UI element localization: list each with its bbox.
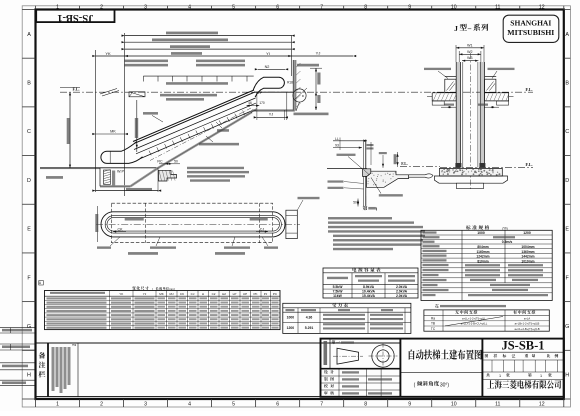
svg-text:1: 1 bbox=[56, 402, 59, 408]
svg-text:CJ: CJ bbox=[191, 292, 195, 296]
plan view - chain label bbox=[250, 218, 268, 221]
plan view - drive unit label bbox=[125, 218, 144, 221]
title block - main title bbox=[399, 339, 401, 397]
svg-text:93: 93 bbox=[335, 144, 339, 148]
view I reference label lower-left bbox=[46, 176, 63, 179]
svg-text:在: 在 bbox=[435, 302, 439, 308]
lower landing floor line bbox=[40, 167, 158, 169]
title block - company name bbox=[487, 380, 561, 389]
middle support note text bbox=[187, 167, 244, 169]
svg-text:F.L.: F.L. bbox=[525, 162, 532, 167]
svg-text:30°): 30°) bbox=[440, 382, 450, 388]
foundation pedestal bbox=[457, 183, 484, 188]
svg-text:1160mm: 1160mm bbox=[476, 250, 489, 254]
title block - drawing number bbox=[481, 339, 483, 397]
force table bbox=[283, 303, 411, 333]
svg-text:UP: UP bbox=[243, 292, 247, 296]
lower hook of handrail bbox=[101, 142, 143, 164]
plan view - right end box bbox=[286, 210, 297, 238]
svg-text:12: 12 bbox=[539, 402, 545, 408]
projection symbol - circle bbox=[372, 345, 394, 367]
SHANGHAI MITSUBISHI logo box bbox=[503, 15, 559, 42]
svg-text:PK: PK bbox=[253, 292, 257, 296]
svg-text:a+CL+2-B+(TI)+y(LB: a+CL+2-B+(TI)+y(LB bbox=[514, 327, 539, 331]
svg-text:J: J bbox=[454, 24, 458, 33]
upper floor wall (grey vertical) bbox=[293, 60, 296, 111]
handrail brackets with hatch (right) bbox=[485, 79, 496, 92]
remarks vertical strip bbox=[47, 343, 49, 397]
svg-text:YK: YK bbox=[105, 51, 111, 56]
svg-text:10: 10 bbox=[451, 4, 457, 10]
svg-text:5.291: 5.291 bbox=[305, 326, 314, 330]
svg-text:11kW: 11kW bbox=[333, 294, 342, 298]
view I - 50 dim bottom bbox=[365, 196, 367, 206]
svg-text:15.4kVA: 15.4kVA bbox=[362, 294, 375, 298]
svg-text:7: 7 bbox=[320, 4, 323, 10]
svg-text:W.P: W.P bbox=[117, 169, 124, 173]
svg-text:6: 6 bbox=[276, 402, 279, 408]
left floor-height dimension bbox=[69, 92, 71, 168]
svg-text:A: A bbox=[27, 32, 31, 38]
svg-text:制: 制 bbox=[324, 377, 328, 382]
plan view - stadium outline outer bbox=[113, 212, 274, 237]
svg-text:11: 11 bbox=[495, 402, 500, 408]
svg-text:759: 759 bbox=[72, 343, 77, 347]
svg-text:B: B bbox=[565, 81, 569, 87]
svg-text:MJ: MJ bbox=[170, 292, 174, 296]
svg-text:D: D bbox=[27, 178, 31, 184]
railing labels (by customer) bbox=[424, 68, 451, 70]
svg-text:46: 46 bbox=[248, 101, 252, 105]
svg-text:1200: 1200 bbox=[523, 231, 531, 235]
step nose ticks bbox=[149, 151, 151, 156]
svg-text:记: 记 bbox=[512, 353, 516, 358]
top-left drawing number box (rotated JS-SB-1) bbox=[36, 10, 114, 23]
svg-text:1242mm: 1242mm bbox=[476, 255, 489, 259]
view I - hatched concrete floor slab bbox=[367, 171, 409, 187]
svg-text:11: 11 bbox=[495, 4, 500, 10]
svg-text:7: 7 bbox=[320, 402, 323, 408]
svg-text:5: 5 bbox=[232, 402, 235, 408]
remarks area box bbox=[36, 343, 401, 397]
ruler column ticks and numbers bbox=[35, 6, 37, 10]
svg-text:RC: RC bbox=[157, 160, 163, 164]
svg-text:LP: LP bbox=[233, 292, 237, 296]
specification table bbox=[466, 225, 489, 229]
svg-text:9: 9 bbox=[408, 402, 411, 408]
svg-text:MK: MK bbox=[110, 129, 116, 133]
balustrade posts bbox=[445, 76, 456, 78]
lower floor line and F.L. bbox=[440, 167, 533, 169]
svg-text:F.L.: F.L. bbox=[401, 162, 407, 166]
upper floor slabs each side bbox=[432, 93, 456, 101]
balustrade inner line bbox=[136, 103, 256, 154]
plan view - bottom hole labels bbox=[97, 246, 111, 248]
foundation hatched band bbox=[440, 168, 503, 176]
plan view - left width dims bbox=[97, 206, 99, 242]
svg-text:2.0kVA: 2.0kVA bbox=[396, 289, 408, 293]
electrical inlet circle right bbox=[293, 89, 306, 102]
title block - vertical strip bbox=[329, 339, 331, 369]
escalator handrail incline band bbox=[133, 90, 254, 142]
svg-text:CK: CK bbox=[118, 227, 124, 231]
svg-text:10.4kVA: 10.4kVA bbox=[362, 289, 375, 293]
skirt / step line bbox=[141, 109, 257, 159]
svg-text:G: G bbox=[565, 324, 569, 330]
svg-text:YJ: YJ bbox=[316, 51, 321, 56]
svg-text:YI: YI bbox=[266, 51, 270, 56]
svg-text:1004mm: 1004mm bbox=[521, 245, 534, 249]
upper landing floor line bbox=[254, 91, 295, 93]
labels on incline bbox=[166, 82, 228, 85]
svg-text:2.0kVA: 2.0kVA bbox=[396, 285, 408, 289]
upper wall hatch ticks bbox=[296, 63, 300, 67]
svg-text:H: H bbox=[565, 373, 569, 379]
svg-text:A: A bbox=[565, 32, 569, 38]
svg-text:50: 50 bbox=[174, 160, 178, 164]
title block - mark row bbox=[482, 359, 563, 361]
vertical dim max6550 bbox=[136, 100, 138, 152]
balustrade top dimension chain bbox=[143, 75, 253, 77]
svg-text:804mm: 804mm bbox=[477, 245, 488, 249]
svg-text:4: 4 bbox=[188, 4, 191, 10]
handrail brackets with hatch (left) bbox=[445, 79, 456, 92]
title block - sheet row bbox=[486, 373, 490, 377]
svg-text:W2: W2 bbox=[467, 50, 472, 54]
comb plate box bbox=[129, 92, 145, 97]
rail feet bbox=[455, 163, 461, 168]
shaft center line bbox=[469, 53, 471, 190]
foundation lower band bbox=[435, 176, 508, 183]
svg-text:50: 50 bbox=[353, 201, 357, 205]
title block outer bbox=[321, 339, 564, 397]
projection symbol - trapezoid bbox=[337, 348, 359, 364]
svg-text:2.0kVA: 2.0kVA bbox=[396, 294, 408, 298]
svg-text:W1: W1 bbox=[467, 43, 472, 47]
svg-text:JS-SB-1: JS-SB-1 bbox=[501, 338, 544, 352]
svg-text:YJ: YJ bbox=[269, 113, 274, 117]
plan view - section title below bbox=[128, 252, 158, 255]
upper hook of handrail bbox=[253, 77, 284, 97]
svg-text:TB: TB bbox=[431, 322, 435, 326]
svg-text:H2: H2 bbox=[222, 292, 226, 296]
svg-text:C2: C2 bbox=[212, 292, 216, 296]
svg-text:H: H bbox=[27, 373, 31, 379]
installation dimension table bbox=[435, 302, 439, 308]
view I - caption bbox=[363, 206, 368, 211]
title block - small cells bbox=[491, 360, 493, 372]
pit floor and slope (grey) bbox=[100, 185, 131, 187]
view I - support angle steel bbox=[363, 169, 371, 177]
svg-text:a+LL+1-2-B+CU+y(LL: a+LL+1-2-B+CU+y(LL bbox=[461, 322, 488, 326]
svg-text:8: 8 bbox=[364, 4, 367, 10]
svg-text:3: 3 bbox=[144, 4, 147, 10]
view I - right small dims bbox=[394, 154, 397, 164]
svg-text:CK: CK bbox=[180, 292, 184, 296]
svg-text:MITSUBISHI: MITSUBISHI bbox=[507, 29, 554, 37]
pit front hatched wall bbox=[104, 170, 111, 185]
svg-text:CJ: CJ bbox=[260, 227, 265, 231]
svg-text:C: C bbox=[27, 129, 31, 135]
svg-text:W3: W3 bbox=[467, 56, 472, 60]
svg-text:E: E bbox=[27, 227, 31, 233]
svg-text:12: 12 bbox=[539, 4, 545, 10]
svg-text:1010mm: 1010mm bbox=[521, 259, 534, 263]
svg-text:8.9kVA: 8.9kVA bbox=[363, 285, 375, 289]
svg-text:a+LA: a+LA bbox=[524, 317, 531, 321]
svg-text:9: 9 bbox=[408, 4, 411, 10]
svg-text:1200: 1200 bbox=[287, 326, 295, 330]
left margin signature table bbox=[0, 327, 36, 329]
inner well lines bbox=[462, 62, 464, 168]
svg-text:YK: YK bbox=[119, 292, 123, 296]
step chain dash-dot line bbox=[150, 108, 252, 161]
svg-text:5.5kW: 5.5kW bbox=[333, 285, 344, 289]
440 dims at slab bbox=[444, 104, 454, 106]
svg-text:4.36: 4.36 bbox=[306, 316, 313, 320]
truss bottom chord (grey) bbox=[158, 112, 252, 168]
svg-text:a+LB+1-2+(TI)+y(LB: a+LB+1-2+(TI)+y(LB bbox=[515, 322, 540, 326]
notes text block bbox=[328, 217, 392, 219]
svg-text:YJ: YJ bbox=[143, 292, 147, 296]
svg-text:1: 1 bbox=[499, 374, 501, 378]
svg-text:SHANGHAI: SHANGHAI bbox=[510, 20, 551, 28]
svg-text:样: 样 bbox=[494, 353, 498, 358]
power capacity table bbox=[323, 268, 418, 298]
middle support hatched block bbox=[159, 170, 177, 181]
svg-text:1000: 1000 bbox=[287, 316, 295, 320]
svg-text:1000: 1000 bbox=[477, 231, 485, 235]
svg-text:B: B bbox=[27, 81, 31, 87]
svg-text:R18: R18 bbox=[287, 81, 293, 85]
first angle projection label bbox=[332, 340, 340, 344]
revision vertical text columns bbox=[52, 347, 55, 391]
view I - support angle label bbox=[337, 154, 356, 156]
svg-text:5: 5 bbox=[232, 4, 235, 10]
view I - slab right tail break curve bbox=[409, 174, 434, 178]
svg-text:2: 2 bbox=[100, 402, 103, 408]
view I - truss vertical member bbox=[365, 140, 367, 206]
view I - left surface labels bbox=[328, 180, 344, 182]
small anchor boxes under slabs bbox=[432, 101, 444, 105]
svg-text:LL: LL bbox=[335, 137, 339, 141]
svg-text:F.L.: F.L. bbox=[525, 87, 532, 92]
dimension labels above bbox=[166, 32, 218, 35]
svg-text:PJ: PJ bbox=[264, 292, 268, 296]
svg-text:810mm: 810mm bbox=[477, 259, 488, 263]
balustrade deck line bbox=[134, 98, 256, 150]
svg-text:Ra: Ra bbox=[431, 317, 435, 321]
svg-text:–: – bbox=[467, 25, 472, 33]
svg-text:1: 1 bbox=[540, 374, 542, 378]
svg-text:MK: MK bbox=[159, 292, 164, 296]
svg-text:H: H bbox=[202, 292, 204, 296]
svg-text:0.5m/s: 0.5m/s bbox=[502, 240, 513, 244]
svg-text:1360mm: 1360mm bbox=[521, 250, 534, 254]
svg-text:8: 8 bbox=[364, 402, 367, 408]
upper floor level line F.L. dash-dot bbox=[60, 91, 533, 93]
svg-text:7.5kW: 7.5kW bbox=[333, 289, 344, 293]
right side -51000 label and dim bbox=[297, 64, 319, 67]
svg-text:JS-SB-1: JS-SB-1 bbox=[57, 12, 93, 23]
plan view - outer dashed envelope bbox=[111, 203, 272, 243]
plan view - center line bbox=[96, 223, 300, 225]
svg-text:170: 170 bbox=[259, 101, 265, 105]
title block - signature rows bbox=[321, 368, 401, 370]
svg-text:I: I bbox=[376, 207, 377, 212]
shaft walls (vertical rails) bbox=[456, 62, 460, 168]
svg-text:D: D bbox=[565, 178, 569, 184]
svg-text:6: 6 bbox=[276, 4, 279, 10]
plan view - inner balustrade lines bbox=[113, 215, 274, 217]
upper truss horizontal (grey) bbox=[252, 109, 295, 112]
svg-text:N2: N2 bbox=[265, 65, 270, 69]
plan view - ceiling panel label bbox=[298, 197, 320, 199]
svg-text:10: 10 bbox=[451, 402, 457, 408]
break marks left bbox=[100, 89, 117, 95]
svg-text:TC: TC bbox=[431, 327, 436, 331]
ruler row ticks and letters bbox=[22, 9, 35, 11]
svg-text:4: 4 bbox=[188, 402, 191, 408]
view I - upper floor line bbox=[327, 168, 367, 170]
svg-text:C: C bbox=[565, 129, 569, 135]
svg-text:1442mm: 1442mm bbox=[521, 255, 534, 259]
elevation view - top dimension lines bbox=[95, 50, 97, 192]
view I - embedded plate label bbox=[379, 194, 403, 196]
svg-text:3: 3 bbox=[144, 402, 147, 408]
bottom YK+2000 dimension bbox=[96, 190, 159, 192]
LA LB max length labels bbox=[124, 60, 168, 63]
svg-text:E: E bbox=[565, 227, 569, 233]
